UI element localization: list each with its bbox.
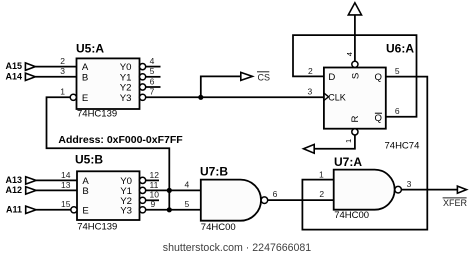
svg-text:U7:A: U7:A (334, 155, 362, 169)
wire U7:B output to U7:A pin 2 (268, 199, 334, 201)
svg-text:Address: 0xF000-0xF7FF: Address: 0xF000-0xF7FF (58, 134, 183, 146)
U7:A output inversion bubble (395, 186, 402, 193)
svg-text:5: 5 (185, 199, 190, 209)
output port XFER (active low) (443, 186, 468, 208)
wire A15 to U5:A pin 2 (35, 66, 76, 68)
wire A11 to U5:B pin 15 (36, 209, 71, 211)
pin name S (rotated) (351, 73, 362, 79)
svg-text:D: D (328, 72, 335, 83)
svg-text:2: 2 (308, 66, 313, 76)
svg-text:XFER: XFER (443, 198, 468, 208)
wire U7:A output to XFER port (401, 189, 457, 191)
pin name R (rotated) (350, 115, 361, 122)
svg-text:2: 2 (319, 189, 324, 199)
svg-text:3: 3 (308, 87, 313, 97)
svg-text:Q: Q (375, 72, 382, 83)
wire U5:B Y1 to U7:B pin 4 (146, 189, 201, 191)
svg-text:E: E (82, 205, 88, 216)
pin number 6 and stub wire Y2 of U5:A (146, 76, 161, 87)
junction address net / Y3 wire (167, 207, 172, 212)
inversion bubble S (352, 61, 358, 67)
svg-text:E: E (82, 93, 88, 104)
U7:B gate body (201, 180, 261, 221)
pin number 10 and stub wire Y2 of U5:B (146, 190, 160, 201)
svg-text:7: 7 (150, 87, 155, 97)
wire branch to CS output port (201, 76, 241, 97)
U5:A body (77, 58, 140, 109)
wire U5:A Y3 to U6:A CLK pin 3 (146, 96, 324, 98)
svg-text:6: 6 (273, 189, 278, 199)
svg-text:A11: A11 (6, 204, 22, 214)
pin number 1 (U6:A R, rotated) (344, 139, 353, 143)
wire A14 to U5:A pin 3 (35, 76, 76, 78)
wire U6:A Q pin 5 down and around to U7:A pin 1 (302, 77, 427, 230)
svg-text:9: 9 (151, 199, 156, 209)
svg-text:Y3: Y3 (120, 93, 132, 104)
svg-text:shutterstock.com · 2247666081: shutterstock.com · 2247666081 (163, 242, 312, 254)
inversion bubble Y1 (140, 74, 146, 80)
pin number 5 and stub wire Y1 of U5:A (146, 66, 161, 77)
inversion bubble Y3 (140, 207, 146, 213)
junction on Y3/CLK net (198, 95, 203, 100)
power VCC arrow (348, 3, 361, 15)
svg-text:CS: CS (258, 72, 271, 82)
CLK edge-trigger mark (324, 93, 329, 100)
wire U5:A pin 1 E net down to address decode net (47, 97, 170, 210)
svg-text:A13: A13 (5, 175, 22, 185)
U6:A body (324, 68, 386, 129)
svg-text:1: 1 (60, 87, 65, 97)
svg-text:A15: A15 (5, 61, 22, 71)
svg-text:1: 1 (319, 169, 324, 179)
svg-text:74HC139: 74HC139 (77, 222, 117, 233)
svg-text:U7:B: U7:B (200, 164, 228, 178)
inversion bubble Y0 (140, 64, 146, 70)
input port A12 (5, 185, 36, 195)
svg-text:74HC00: 74HC00 (201, 222, 236, 233)
svg-text:U5:B: U5:B (75, 152, 103, 166)
svg-text:4: 4 (185, 180, 190, 190)
pin number 4 (U6:A S, rotated) (345, 52, 354, 56)
svg-text:10: 10 (150, 190, 160, 200)
svg-text:15: 15 (61, 199, 71, 209)
svg-text:U6:A: U6:A (386, 41, 414, 55)
wire U6:A S pin 4 to VCC (354, 15, 356, 61)
inversion bubble Y0 (140, 177, 146, 183)
svg-text:3: 3 (407, 179, 412, 189)
inversion bubble Y2 (140, 197, 146, 203)
nand gate U7:A 74HC00 (334, 155, 402, 221)
wire U6:A Qbar feedback to D pin 2 (293, 35, 417, 117)
svg-text:1: 1 (344, 139, 353, 143)
svg-text:B: B (82, 186, 88, 197)
wire A12 to U5:B pin 13 (36, 189, 77, 191)
wire A13 to U5:B pin 14 (36, 179, 77, 181)
svg-text:U5:A: U5:A (76, 41, 104, 55)
inversion bubble Y2 (140, 84, 146, 90)
inversion bubble E (70, 94, 76, 100)
svg-text:R: R (350, 115, 361, 122)
svg-text:74HC139: 74HC139 (77, 109, 117, 120)
input port A13 (5, 175, 36, 185)
svg-text:Y3: Y3 (120, 205, 132, 216)
junction address net / Y1 wire (167, 188, 172, 193)
wire U6:A R pin 1 to reset arrow (314, 135, 355, 149)
reset signal arrow (off-page, pointing left) (304, 144, 315, 153)
svg-text:12: 12 (150, 170, 160, 180)
svg-text:B: B (82, 72, 88, 83)
input port A11 (6, 204, 36, 214)
svg-text:5: 5 (395, 66, 400, 76)
svg-text:3: 3 (60, 66, 65, 76)
svg-text:2: 2 (60, 56, 65, 66)
U5:B body (77, 171, 140, 220)
inversion bubble R (352, 129, 358, 135)
inversion bubble E (71, 207, 77, 213)
U7:B output inversion bubble (261, 197, 268, 204)
input port A14 (5, 71, 35, 81)
svg-text:74HC74: 74HC74 (385, 141, 420, 152)
decoder U5:A 74HC139 (70, 41, 145, 119)
flip-flop U6:A 74HC74 (324, 41, 419, 151)
svg-text:CLK: CLK (328, 92, 346, 102)
svg-text:74HC00: 74HC00 (334, 210, 369, 221)
svg-text:Q: Q (375, 113, 382, 124)
svg-text:4: 4 (345, 52, 354, 56)
output port CS (active low) (241, 72, 270, 83)
svg-text:6: 6 (150, 76, 155, 86)
svg-text:4: 4 (150, 56, 155, 66)
wire U5:B Y3 to U7:B pin 5 (146, 209, 201, 211)
svg-text:5: 5 (150, 66, 155, 76)
inversion bubble Y1 (140, 187, 146, 193)
svg-text:6: 6 (395, 106, 400, 116)
nand gate U7:B 74HC00 (200, 164, 268, 233)
input port A15 (5, 61, 35, 71)
pin number 4 and stub wire Y0 of U5:A (146, 56, 161, 67)
svg-text:13: 13 (61, 180, 71, 190)
decoder U5:B 74HC139 (71, 152, 146, 232)
svg-text:14: 14 (61, 170, 71, 180)
svg-text:A14: A14 (5, 71, 22, 81)
pin number 12 and stub wire Y0 of U5:B (146, 170, 160, 181)
U7:A gate body (334, 170, 395, 210)
svg-text:A12: A12 (5, 185, 22, 195)
Qbar overline (375, 112, 382, 114)
svg-text:11: 11 (150, 180, 159, 190)
inversion bubble Y3 (140, 94, 146, 100)
svg-text:S: S (351, 73, 362, 79)
